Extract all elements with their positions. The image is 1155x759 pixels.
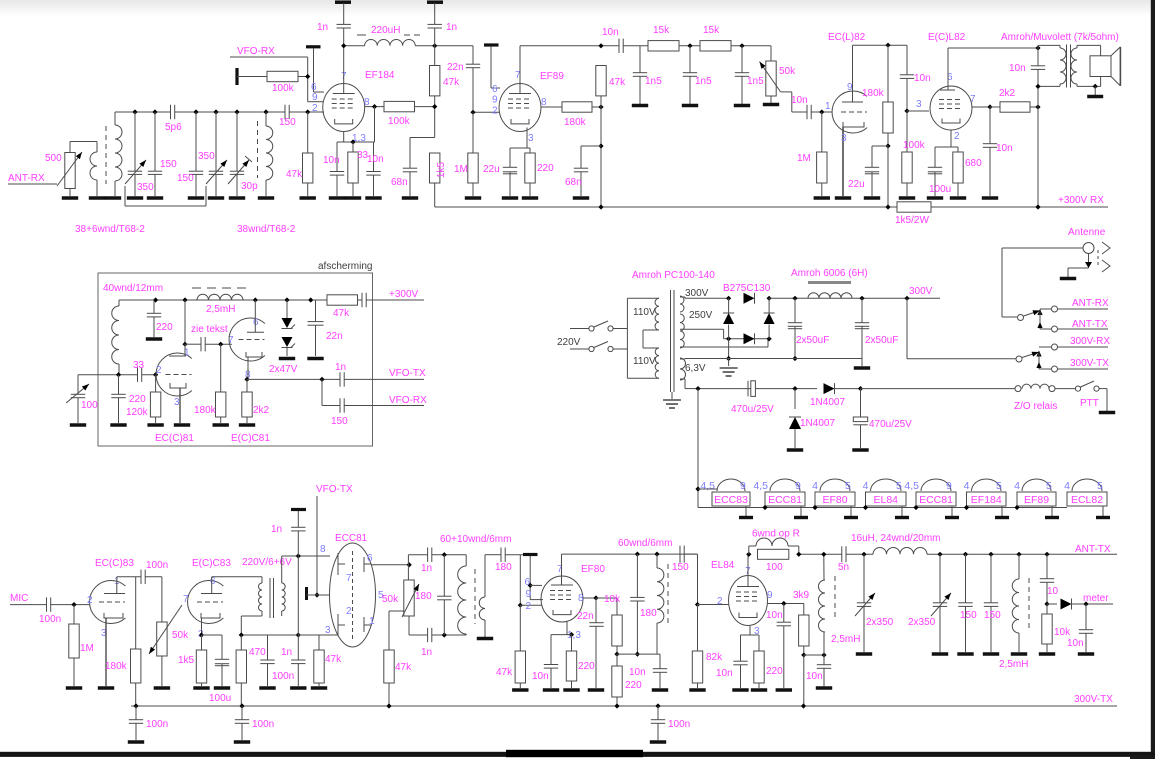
wire grid cap vertical down [297, 556, 299, 635]
heater EF89 no7 [1017, 492, 1056, 506]
capacitor 470u/25V shunt [860, 389, 862, 417]
diode 1N4007 shunt [794, 389, 796, 409]
svg-text:47k: 47k [395, 662, 412, 673]
svg-text:100u: 100u [209, 693, 231, 704]
svg-text:E(C)L82: E(C)L82 [928, 32, 966, 43]
svg-text:100n: 100n [252, 719, 274, 730]
secondary winding 250V section [680, 314, 684, 348]
resistor 180k EF89 plate to node [541, 106, 562, 108]
triode E(C)C83 [188, 581, 224, 624]
svg-text:ECC81: ECC81 [919, 494, 953, 506]
top rail to OPT [948, 47, 1038, 49]
grid stop terminal [305, 587, 308, 600]
window bottom bar [0, 752, 1155, 757]
capacitor 100n rail no2 [241, 706, 243, 720]
resistor 1M grid EC(L)82 [821, 112, 823, 152]
capacitor 100n coupling TX [140, 570, 142, 584]
PTT switch [1055, 388, 1076, 390]
svg-text:300V-TX: 300V-TX [1074, 694, 1113, 705]
heater EL84 no4 [866, 492, 907, 506]
svg-text:1k5/2W: 1k5/2W [895, 215, 929, 226]
wire node down to rail [600, 107, 602, 207]
capacitor 150 no2 [195, 112, 197, 171]
svg-text:10n: 10n [996, 143, 1013, 154]
svg-text:6: 6 [210, 576, 216, 587]
heater supply drop wire [697, 389, 699, 508]
transformer core PC100-140 [670, 290, 672, 392]
svg-text:B275C130: B275C130 [723, 283, 771, 294]
heater ground EF89 [1051, 506, 1053, 516]
svg-text:6: 6 [492, 84, 498, 95]
VFO output line TX [247, 378, 340, 380]
svg-text:150: 150 [984, 610, 1001, 621]
capacitor 150 no1 [154, 112, 156, 171]
svg-text:ECC81: ECC81 [335, 533, 368, 544]
secondary HV bottom return [680, 346, 768, 348]
svg-text:100k: 100k [903, 140, 926, 151]
svg-text:100: 100 [766, 562, 783, 573]
svg-text:82k: 82k [706, 652, 723, 663]
heater ground EF80 [850, 506, 852, 516]
wire 180k node to rail [887, 146, 889, 207]
pentode EF80 [541, 576, 583, 622]
pentode EF89 [499, 84, 541, 132]
svg-text:220: 220 [625, 680, 642, 691]
svg-text:ECL82: ECL82 [1071, 494, 1103, 506]
capacitor zie tekst series [185, 343, 201, 345]
svg-text:47k: 47k [443, 77, 460, 88]
svg-text:EC(C)81: EC(C)81 [155, 433, 194, 444]
resistor 47k plate load EF184 [434, 46, 436, 66]
svg-text:2x350: 2x350 [908, 617, 936, 628]
svg-text:180: 180 [640, 608, 657, 619]
top line RX-A [344, 45, 365, 47]
svg-text:1: 1 [369, 616, 375, 627]
secondary winding 300V [680, 296, 684, 312]
ground row input circuit [62, 196, 78, 199]
svg-text:68n: 68n [565, 177, 582, 188]
svg-text:180k: 180k [194, 405, 217, 416]
svg-text:4: 4 [812, 480, 818, 492]
capacitor 1n VFO out [339, 372, 341, 386]
EL84 cathode network [749, 626, 751, 635]
svg-text:3k9: 3k9 [793, 590, 810, 601]
svg-text:2x47V: 2x47V [269, 364, 298, 375]
relay switch 300V [1016, 356, 1022, 362]
wire grid top EC(L)82 [852, 45, 854, 102]
capacitor 10n screen EL84 [783, 604, 785, 623]
gang link wire [124, 186, 126, 206]
svg-text:40wnd/12mm: 40wnd/12mm [103, 283, 163, 294]
svg-text:9: 9 [740, 480, 746, 492]
svg-text:220uH: 220uH [371, 25, 400, 36]
svg-text:220V: 220V [557, 337, 581, 348]
resistor 1M mic [73, 605, 75, 624]
wire pin7 to 2k2 [972, 106, 990, 108]
pentode EF184 [323, 84, 365, 132]
resistor 47k grid leak EF80 [519, 605, 521, 651]
oscillator top line [408, 554, 427, 556]
svg-text:100u: 100u [929, 184, 951, 195]
loudspeaker [1090, 56, 1111, 77]
svg-text:2: 2 [492, 106, 498, 117]
capacitor 10n under choke [823, 655, 825, 665]
svg-text:E(C)C83: E(C)C83 [192, 558, 231, 569]
resistor 1M grid EF89 [472, 112, 474, 153]
svg-text:470: 470 [249, 647, 266, 658]
svg-text:ANT-RX: ANT-RX [8, 173, 45, 184]
svg-text:+300V: +300V [389, 289, 419, 300]
svg-text:350: 350 [198, 151, 215, 162]
svg-text:100n: 100n [668, 719, 690, 730]
svg-text:6wnd op R: 6wnd op R [752, 529, 800, 540]
capacitor 2x50uF no2 [861, 298, 863, 322]
svg-text:22n: 22n [447, 62, 464, 73]
svg-text:2: 2 [87, 595, 93, 606]
wire pin6 E(C)C81 [254, 300, 256, 332]
capacitor 68n no2 [581, 145, 601, 147]
svg-text:2: 2 [954, 131, 960, 142]
pot 50k volume [770, 46, 772, 61]
resistor 82k grid leak EL84 [697, 605, 699, 652]
capacitor 10n tank [659, 654, 661, 668]
svg-text:150: 150 [672, 562, 689, 573]
tank bottom line [617, 653, 660, 655]
capacitor series +300V out [361, 293, 363, 307]
svg-text:EF80: EF80 [822, 494, 847, 506]
svg-text:5: 5 [845, 480, 851, 492]
capacitor 150 coupling EL84 [679, 546, 681, 563]
wire grid EL84 [697, 554, 699, 604]
cathode E(C)C83 1k5 and 100u [201, 618, 203, 635]
svg-text:120k: 120k [126, 407, 149, 418]
capacitor 10n screen [906, 45, 908, 74]
top rail EC(L)82 [853, 44, 908, 46]
svg-text:100n: 100n [146, 560, 168, 571]
window right edge [1151, 0, 1155, 759]
wire pin7 EF80 [561, 554, 563, 585]
svg-text:VFO-RX: VFO-RX [389, 395, 427, 406]
svg-text:22u: 22u [483, 164, 500, 175]
secondary winding 6,3V [680, 358, 686, 380]
VFO grid line [78, 374, 138, 376]
heater ground ECC83 [745, 506, 747, 516]
svg-text:47k: 47k [496, 667, 513, 678]
svg-text:220: 220 [578, 661, 595, 672]
heater ECC83 no1 [712, 492, 750, 506]
svg-text:10k: 10k [1054, 627, 1071, 638]
primary winding 110V no1 [655, 298, 659, 330]
capacitor 150 VFO-RX out [339, 398, 341, 412]
svg-text:220: 220 [537, 163, 554, 174]
svg-text:2k2: 2k2 [253, 405, 270, 416]
svg-text:350: 350 [137, 182, 154, 193]
ground bus PSU [685, 358, 862, 360]
svg-text:150: 150 [177, 173, 194, 184]
svg-text:1n: 1n [271, 524, 282, 535]
relay coil Z/O relais [861, 388, 1016, 390]
svg-text:300V-TX: 300V-TX [1070, 358, 1109, 369]
svg-text:EC(L)82: EC(L)82 [828, 32, 866, 43]
triode EC(L)82 [832, 91, 867, 133]
capacitor 22n coupling to EF89 [472, 46, 474, 64]
choke 2,5mH no2 [1018, 554, 1020, 579]
resistor 47k grid leak [307, 112, 309, 153]
svg-text:1n5: 1n5 [645, 76, 662, 87]
diode meter [1047, 603, 1057, 605]
variable capacitor 350 no2 [215, 112, 217, 171]
variable capacitor 2x350 no1 [863, 554, 865, 602]
svg-text:3: 3 [916, 99, 922, 110]
svg-text:1n: 1n [421, 563, 432, 574]
svg-text:2k2: 2k2 [999, 88, 1016, 99]
svg-text:2: 2 [312, 103, 318, 114]
wire plate E(C)C83 to transformer [211, 577, 213, 594]
svg-text:110V: 110V [633, 307, 656, 318]
triode EC(C)81 oscillator [156, 353, 192, 396]
resistor 47k to rail [384, 650, 394, 683]
VFO-RX output [321, 379, 323, 405]
triode EC(C)83 [90, 581, 126, 624]
capacitor 150 series in bus [284, 105, 286, 119]
pentode E(C)L82 [930, 86, 972, 130]
svg-text:E(C)C81: E(C)C81 [231, 433, 270, 444]
capacitor 10n coupling [806, 105, 808, 119]
svg-text:2x50uF: 2x50uF [796, 335, 829, 346]
ground bar pin6 EF89 [484, 43, 499, 46]
capacitor 100n mic [46, 597, 48, 611]
oscillator bottom line [408, 616, 410, 635]
svg-text:22n: 22n [577, 611, 594, 622]
wire plate EC(C)81 [184, 300, 186, 344]
variable capacitor 100 VFO [77, 375, 79, 394]
svg-text:EC(C)83: EC(C)83 [95, 558, 134, 569]
svg-text:1M: 1M [797, 153, 811, 164]
grid cap stem EF80 [529, 556, 531, 600]
capacitor 22u cathode bypass no2 [872, 145, 888, 147]
wire pin8 to 2k2 [247, 357, 249, 379]
heater ground ECC81 [951, 506, 953, 516]
svg-text:100n: 100n [272, 671, 294, 682]
svg-text:300V: 300V [909, 286, 933, 297]
diode 1N4007 series [795, 388, 817, 390]
svg-text:47k: 47k [609, 77, 626, 88]
svg-text:VFO-TX: VFO-TX [316, 484, 353, 495]
svg-text:180k: 180k [105, 661, 128, 672]
svg-text:60+10wnd/6mm: 60+10wnd/6mm [440, 534, 511, 545]
ground loudspeaker [1093, 84, 1098, 89]
svg-text:6: 6 [524, 577, 530, 588]
svg-text:100k: 100k [272, 83, 295, 94]
wire main grid bus RX [115, 111, 171, 113]
capacitor 10n cathode left [336, 142, 338, 172]
svg-text:EF184: EF184 [365, 70, 395, 81]
svg-text:3: 3 [528, 133, 534, 144]
svg-text:9: 9 [492, 95, 498, 106]
transformer primary bottom to 470 [261, 611, 263, 616]
svg-text:9: 9 [795, 480, 801, 492]
capacitor 22n EF80 screen [583, 597, 596, 599]
wire pin6 to pot top [371, 564, 409, 566]
capacitor 220 VFO no1 [153, 300, 155, 313]
svg-text:9: 9 [312, 92, 318, 103]
EF89 cathode 22u and 220 [526, 128, 528, 149]
resistor 15k no2 [700, 41, 731, 51]
cathode EC(C)81 to ground [179, 388, 181, 423]
svg-text:6: 6 [253, 317, 259, 328]
svg-text:6: 6 [367, 553, 373, 564]
svg-text:10n: 10n [766, 610, 783, 621]
capacitor 1n5 no2 [689, 46, 691, 73]
svg-text:10: 10 [1047, 586, 1059, 597]
svg-text:7: 7 [557, 564, 563, 575]
resistor 180k VFO [220, 344, 222, 392]
heater ground ECL82 [1102, 506, 1104, 516]
capacitor 1n decoupling no2 [427, 0, 443, 4]
capacitor 68n and resistor 1k5 EF184 [410, 137, 435, 139]
svg-text:15k: 15k [653, 25, 670, 36]
trimmer 30p [236, 112, 238, 171]
svg-text:meter: meter [1083, 593, 1109, 604]
choke 2,5mH no1 [804, 654, 824, 656]
svg-text:100: 100 [81, 400, 98, 411]
svg-text:16uH, 24wnd/20mm: 16uH, 24wnd/20mm [851, 533, 941, 544]
wire to grid EF80 [519, 555, 521, 606]
svg-text:4,5: 4,5 [700, 480, 715, 492]
capacitor 10n no4 [989, 107, 991, 144]
svg-text:VFO-TX: VFO-TX [389, 368, 426, 379]
pot 50k oscillator feedback [404, 580, 414, 616]
svg-text:15k: 15k [703, 25, 720, 36]
resistor 47k +300V feed [327, 295, 358, 305]
wire ANT-RX input [8, 183, 57, 185]
top line RX-B [520, 45, 619, 47]
cathode EC(L)82 to ground [842, 127, 844, 196]
capacitor 33 series VFO [137, 368, 139, 382]
resistor 100k VFO injection [235, 68, 238, 85]
svg-text:ANT-TX: ANT-TX [1075, 544, 1111, 555]
resistor 15k no1 [648, 41, 679, 51]
svg-text:50k: 50k [382, 594, 399, 605]
svg-text:1n: 1n [335, 362, 346, 373]
wire plate EC(C)83 [116, 577, 118, 594]
wire 300V to switch [906, 298, 908, 359]
svg-text:10n: 10n [367, 154, 384, 165]
svg-text:Amroh PC100-140: Amroh PC100-140 [632, 270, 715, 281]
microphone input wire [10, 604, 47, 606]
transformer 38wnd/T68-2 [257, 121, 259, 178]
resistor 100k plate EF184 to 47k [365, 106, 384, 108]
svg-text:50k: 50k [172, 630, 189, 641]
svg-text:EF184: EF184 [971, 494, 1002, 506]
resistor 1k5/2W in rail [897, 202, 931, 212]
capacitor 220 VFO no2 [118, 375, 120, 394]
capacitor 10n across OPT [1037, 48, 1039, 66]
svg-text:110V: 110V [633, 356, 656, 367]
wire pin6 top E(C)L82 [947, 48, 949, 90]
svg-text:5p6: 5p6 [165, 122, 182, 133]
relay switch ANT [1018, 315, 1024, 321]
capacitor 100n rail no3 [657, 706, 659, 720]
heater EF80 no3 [815, 492, 855, 506]
svg-text:180k: 180k [862, 88, 885, 99]
svg-text:Amroh/Muvolett (7k/5ohm): Amroh/Muvolett (7k/5ohm) [1001, 32, 1119, 43]
capacitor 1n5 no3 [741, 46, 743, 73]
svg-text:10n: 10n [806, 671, 823, 682]
svg-text:10n: 10n [914, 73, 931, 84]
resistor 120k VFO grid [155, 375, 157, 392]
inductor 2,5mH VFO [197, 294, 243, 300]
svg-text:38wnd/T68-2: 38wnd/T68-2 [237, 224, 296, 235]
svg-text:2: 2 [156, 365, 162, 376]
capacitor 1n osc top [427, 548, 429, 562]
svg-text:EF89: EF89 [540, 71, 564, 82]
svg-text:EL84: EL84 [873, 494, 898, 506]
capacitor 1n osc bottom [427, 628, 429, 642]
svg-text:1k5: 1k5 [436, 162, 447, 179]
svg-text:180: 180 [415, 591, 432, 602]
svg-text:10n: 10n [602, 27, 619, 38]
capacitor 100n TX no3 [267, 635, 269, 660]
resistor 100k grid leak E(C)L82 [906, 111, 908, 152]
svg-text:10n: 10n [716, 668, 733, 679]
wire pin8 feedback [374, 107, 376, 142]
inductor 16uH 24wnd/20mm [873, 548, 927, 555]
svg-text:2x350: 2x350 [866, 617, 894, 628]
svg-text:EF80: EF80 [581, 564, 605, 575]
svg-text:4: 4 [1014, 480, 1020, 492]
svg-text:220: 220 [766, 666, 783, 677]
wire grid E(C)L82 [907, 110, 929, 112]
svg-text:1n: 1n [446, 22, 457, 33]
svg-text:4,5: 4,5 [904, 480, 919, 492]
capacitor 470u/25V series [747, 381, 749, 397]
svg-text:2: 2 [717, 596, 723, 607]
svg-text:10n: 10n [791, 95, 808, 106]
svg-text:150: 150 [960, 610, 977, 621]
svg-text:1M: 1M [80, 643, 94, 654]
variable capacitor 350 no1 [134, 112, 136, 171]
svg-text:220: 220 [129, 394, 146, 405]
resistor 47k screen EF89 [596, 66, 606, 96]
svg-text:5: 5 [1046, 480, 1052, 492]
wire antenna to relay switch [1001, 248, 1003, 317]
svg-text:ECC83: ECC83 [714, 494, 748, 506]
capacitor 100n rail no1 [135, 706, 137, 720]
svg-text:4: 4 [863, 480, 869, 492]
svg-text:300V-RX: 300V-RX [1070, 336, 1110, 347]
svg-text:1n: 1n [281, 647, 292, 658]
svg-text:6,3V: 6,3V [685, 363, 706, 374]
heater ground EF184 [1001, 506, 1003, 516]
earth ground bridge [728, 339, 730, 359]
earth ground transformer core [671, 392, 673, 399]
svg-text:10n: 10n [1067, 638, 1084, 649]
svg-text:10n: 10n [1009, 63, 1026, 74]
svg-text:5: 5 [896, 480, 902, 492]
svg-text:1k5: 1k5 [178, 655, 195, 666]
capacitor 10n meter [1085, 604, 1087, 630]
cathode EC(C)83 [105, 618, 107, 686]
svg-text:+300V RX: +300V RX [1058, 195, 1104, 206]
svg-text:1: 1 [825, 101, 831, 112]
svg-text:2,5mH: 2,5mH [206, 304, 235, 315]
E(C)L82 cathode 680 and 100u [950, 130, 952, 147]
TX B+ line over EF80 [562, 553, 698, 555]
rail +300V RX [435, 206, 897, 208]
svg-text:5n: 5n [838, 562, 849, 573]
svg-text:47k: 47k [333, 308, 350, 319]
